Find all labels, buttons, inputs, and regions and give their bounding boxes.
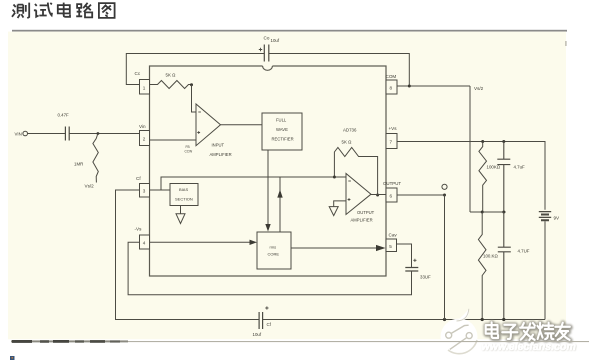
- svg-text:1MR: 1MR: [74, 162, 83, 167]
- svg-text:SECTION: SECTION: [175, 197, 193, 202]
- svg-text:FULL: FULL: [276, 118, 287, 123]
- svg-text:OUTPUT: OUTPUT: [383, 181, 401, 186]
- pin 2 box: [140, 131, 150, 146]
- junction dot output amp inverting node: [333, 176, 336, 179]
- junction dot feedback node A: [190, 83, 193, 86]
- svg-text:Co: Co: [264, 36, 270, 41]
- svg-text:7: 7: [390, 140, 393, 145]
- svg-text:AMPLIFIER: AMPLIFIER: [210, 152, 232, 157]
- junction dot output node: [376, 194, 379, 197]
- wire battery minus down to ground rail: [544, 221, 546, 319]
- input terminal VIN: [23, 131, 28, 136]
- op-amp1 plus marker: [197, 131, 200, 134]
- svg-text:4.7UF: 4.7UF: [518, 249, 530, 254]
- junction dot ground rail / divider branch: [481, 318, 484, 321]
- op-amp1 minus marker: [198, 111, 201, 113]
- svg-text:5: 5: [389, 244, 392, 249]
- output terminal circle: [442, 184, 447, 189]
- svg-text:FB: FB: [186, 145, 190, 149]
- pin 6 box: [386, 188, 397, 202]
- resistor 1M bias to Vs/2: [93, 134, 98, 183]
- char 图: [99, 3, 115, 18]
- pin 5 box: [386, 239, 397, 252]
- title 测试电路图 (hand-drawn strokes): [12, 3, 115, 19]
- svg-text:INPUT: INPUT: [212, 143, 225, 148]
- wire rms core up to output amp input (arrow up): [279, 177, 281, 232]
- junction dot at COM wire: [408, 85, 411, 88]
- svg-text:5K Ω: 5K Ω: [166, 73, 177, 78]
- resistor 100k lower (divider bottom): [478, 212, 486, 320]
- junction dot midpoint / C lower: [502, 211, 505, 214]
- wire pin5 to Cav capacitor: [397, 244, 412, 267]
- wire pin2 to op-amp1 non-inverting input: [150, 139, 197, 141]
- capacitor Co plates: [264, 45, 269, 62]
- svg-text:Cc: Cc: [135, 71, 141, 76]
- resistor 5K output amp feedback: [334, 148, 377, 196]
- svg-text:AMPLIFIER: AMPLIFIER: [351, 218, 373, 223]
- battery BT1 9V plates: [539, 212, 551, 218]
- junction dot ground rail / bypass branch: [502, 318, 505, 321]
- svg-text:rms: rms: [270, 245, 277, 250]
- caption smudge bar bottom-left: [10, 340, 589, 360]
- ground at output amp: [329, 207, 338, 216]
- svg-text:OUTPUT: OUTPUT: [357, 210, 375, 215]
- char 测: [12, 3, 29, 19]
- block BIAS SECTION: [170, 184, 198, 206]
- wire Vs/2 riser down to divider midpoint: [469, 86, 471, 212]
- svg-text:10uf: 10uf: [271, 38, 280, 43]
- wire pin3 to bias section: [150, 189, 171, 191]
- wire Co to COM junction node: [269, 54, 410, 87]
- svg-text:Vs/2: Vs/2: [85, 184, 95, 189]
- wire VIN to input capacitor: [28, 133, 66, 135]
- svg-text:AD736: AD736: [343, 128, 357, 133]
- char 试: [34, 3, 52, 17]
- svg-text:5K Ω: 5K Ω: [342, 140, 353, 145]
- op-amp2 plus marker: [348, 198, 351, 201]
- capacitor Cf polarity +: [265, 306, 268, 309]
- svg-text:-Vs: -Vs: [135, 227, 143, 232]
- elecfans logo circle: [441, 309, 478, 356]
- svg-text:3: 3: [143, 189, 146, 194]
- wire hop on IC top border under Co: [263, 65, 273, 68]
- svg-text:10uf: 10uf: [253, 332, 262, 337]
- pin 3 box: [140, 184, 150, 198]
- pin 4 box: [140, 235, 150, 249]
- junction dot +Vs rail / R divider: [481, 140, 484, 143]
- junction dot at output terminal: [443, 194, 446, 197]
- resistor 100k upper (divider top): [479, 142, 487, 213]
- wire pin6 to output terminal: [397, 194, 445, 196]
- wire pin1 Cc lead: left and up to top rail: [126, 54, 264, 85]
- wire pin4 into rms core (arrow): [150, 241, 251, 243]
- wire divider midpoint rail: [470, 211, 506, 213]
- svg-text:RECTIFIER: RECTIFIER: [272, 137, 294, 142]
- char 电: [58, 3, 70, 17]
- svg-text:+Vs: +Vs: [389, 126, 398, 131]
- wire op-amp1 output to rectifier: [221, 124, 263, 126]
- resistor 5K input amp feedback: [150, 81, 192, 89]
- svg-text:9V: 9V: [554, 216, 561, 221]
- junction dot input / 1M bias resistor: [97, 132, 100, 135]
- block rms CORE: [257, 232, 291, 269]
- char 路: [76, 3, 92, 18]
- svg-text:2: 2: [143, 137, 146, 142]
- wire rms core output to pin5 (arrow): [291, 247, 377, 249]
- svg-text:CCW: CCW: [185, 150, 193, 154]
- IC box U1 AD736 outline: [150, 66, 387, 276]
- op-amp U1a INPUT AMPLIFIER triangle: [196, 104, 221, 146]
- svg-text:0.47F: 0.47F: [58, 113, 70, 118]
- svg-text:VIN: VIN: [15, 132, 22, 137]
- capacitor Co polarity +: [259, 48, 262, 51]
- capacitor Cf plates (series in bottom rail): [259, 312, 263, 329]
- pin 8 box: [386, 80, 397, 94]
- ground below bias section: [176, 206, 185, 224]
- svg-text:Vs/2: Vs/2: [474, 86, 484, 91]
- wire ground rail bottom (pin3 Cf net): [116, 190, 546, 320]
- capacitor 4.7uF lower bypass: [498, 212, 511, 320]
- svg-text:4.7uF: 4.7uF: [514, 165, 526, 170]
- title underline: [12, 30, 567, 32]
- svg-text:Vin: Vin: [139, 124, 146, 129]
- svg-text:6: 6: [390, 194, 393, 199]
- svg-text:Cf: Cf: [136, 176, 141, 181]
- op-amp2 minus marker: [348, 180, 351, 182]
- stray gray tick at cream right edge: [565, 41, 566, 46]
- svg-text:BIAS: BIAS: [179, 187, 188, 192]
- svg-text:1: 1: [143, 86, 146, 91]
- wire +Vs rail from pin7 to battery: [397, 142, 545, 210]
- wire internal Cf net: pin3 riser and long horizontal: [161, 177, 346, 190]
- junction dot +Vs rail / C bypass: [502, 140, 505, 143]
- capacitor 0.47F input coupling plates: [65, 127, 69, 141]
- svg-text:Cav: Cav: [389, 233, 398, 238]
- pin 1 box: [140, 80, 150, 95]
- block FULL WAVE RECTIFIER: [262, 113, 302, 150]
- capacitor Cav polarity +: [413, 259, 416, 262]
- capacitor Cav 33UF plates: [405, 268, 418, 272]
- wire output terminal down to ground rail: [444, 195, 446, 320]
- junction dot midpoint / R lower: [481, 211, 484, 214]
- wire node A down to op-amp1 inverting input: [192, 85, 197, 112]
- svg-text:CORE: CORE: [268, 252, 280, 257]
- svg-text:33UF: 33UF: [420, 275, 431, 280]
- wire rectifier down into rms core (arrow): [267, 150, 269, 224]
- pin 7 box: [386, 134, 397, 149]
- svg-text:WAVE: WAVE: [276, 127, 288, 132]
- svg-text:8: 8: [390, 86, 393, 91]
- svg-text:COM: COM: [386, 74, 397, 79]
- wire pin4 -Vs to Cav return rail: [128, 242, 411, 294]
- op-amp U1b OUTPUT AMPLIFIER triangle: [346, 174, 371, 215]
- wire pin8 COM to Vs/2 riser: [397, 85, 470, 87]
- junction dot ground rail / output branch: [443, 318, 446, 321]
- capacitor 4.7uF upper bypass: [497, 142, 510, 213]
- wire input cap to pin2 Vin: [69, 133, 139, 135]
- svg-text:4: 4: [143, 241, 146, 246]
- wire op-amp2 plus input to ground: [334, 201, 346, 207]
- svg-text:100KΩ: 100KΩ: [487, 165, 501, 170]
- svg-text:100.KΩ: 100.KΩ: [483, 254, 498, 259]
- svg-text:Cf: Cf: [267, 322, 272, 327]
- svg-text:www.elecfans.com: www.elecfans.com: [482, 341, 576, 353]
- wire op-amp2 output to pin6: [371, 194, 386, 196]
